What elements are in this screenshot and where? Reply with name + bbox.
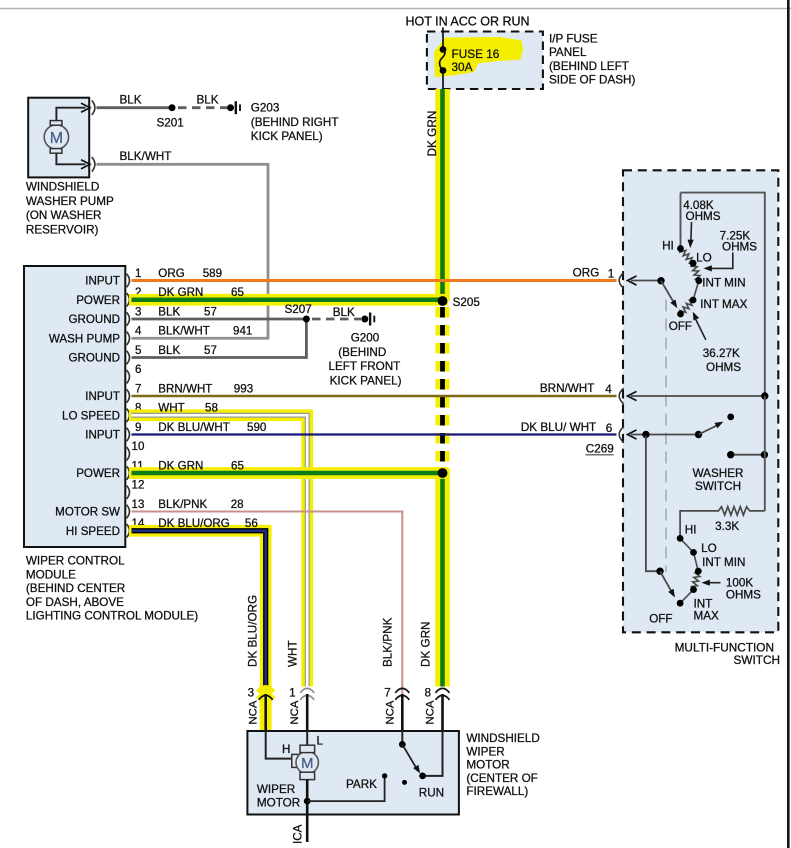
module pin 4 connector bbox=[127, 332, 130, 345]
svg-text:OHMS: OHMS bbox=[686, 210, 721, 223]
svg-text:FUSE 16: FUSE 16 bbox=[452, 47, 500, 61]
highlight blob over fuse bbox=[434, 37, 523, 77]
park junction bbox=[304, 798, 311, 805]
svg-text:OHMS: OHMS bbox=[726, 588, 761, 601]
svg-text:SWITCH: SWITCH bbox=[733, 653, 780, 667]
wire pin 8 to RUN contact bbox=[426, 731, 443, 776]
multi-function switch box bbox=[623, 170, 778, 632]
svg-text:S205: S205 bbox=[453, 296, 481, 309]
svg-text:BLK/WHT: BLK/WHT bbox=[158, 325, 210, 338]
svg-text:589: 589 bbox=[203, 267, 222, 280]
wire INT MIN to INT MAX bbox=[693, 281, 699, 300]
svg-text:BLK: BLK bbox=[197, 93, 219, 106]
svg-text:I/P FUSE: I/P FUSE bbox=[549, 33, 598, 46]
svg-text:941: 941 bbox=[233, 325, 252, 338]
svg-text:3: 3 bbox=[135, 305, 141, 318]
svg-text:36.27K: 36.27K bbox=[703, 347, 740, 360]
washer pump motor M symbol bbox=[44, 125, 68, 149]
NCA break connector pin 1 (WHT) bbox=[300, 688, 314, 692]
svg-text:(BEHIND LEFT: (BEHIND LEFT bbox=[549, 60, 629, 73]
wire BLK pump to S201 bbox=[97, 106, 173, 109]
resistor 100K between INT MIN and INT MAX bbox=[691, 571, 699, 589]
page right border line bbox=[787, 0, 790, 848]
svg-text:POWER: POWER bbox=[76, 467, 120, 480]
module pin 2 connector bbox=[127, 293, 130, 306]
svg-text:(CENTER OF: (CENTER OF bbox=[466, 772, 537, 785]
svg-text:3: 3 bbox=[248, 687, 255, 700]
svg-text:GROUND: GROUND bbox=[68, 313, 120, 326]
svg-text:INT MAX: INT MAX bbox=[700, 298, 747, 311]
svg-text:WINDSHIELD: WINDSHIELD bbox=[466, 732, 539, 745]
svg-text:(ON WASHER: (ON WASHER bbox=[26, 209, 102, 222]
wire BLK dashed S207 to G200 bbox=[312, 318, 361, 321]
svg-text:13: 13 bbox=[132, 498, 145, 511]
svg-text:MOTOR SW: MOTOR SW bbox=[55, 506, 120, 519]
park switch arm to RUN bbox=[402, 744, 416, 768]
wire WHT pin 8 to motor pin 1 (highlighted) bbox=[129, 415, 307, 686]
wiper switch feed wire (top chain) bbox=[681, 193, 765, 398]
svg-text:NCA: NCA bbox=[248, 700, 260, 724]
svg-text:1: 1 bbox=[135, 267, 141, 280]
svg-text:POWER: POWER bbox=[76, 294, 120, 307]
svg-text:1: 1 bbox=[289, 687, 296, 700]
svg-text:HOT IN ACC OR RUN: HOT IN ACC OR RUN bbox=[406, 15, 530, 29]
washer selector arm bbox=[646, 436, 660, 571]
svg-text:S207: S207 bbox=[285, 303, 312, 316]
MFS pin 4 connector bbox=[619, 388, 623, 404]
svg-text:57: 57 bbox=[204, 305, 217, 318]
svg-text:4: 4 bbox=[605, 383, 612, 396]
splice S205 bbox=[438, 296, 448, 306]
svg-text:BLK: BLK bbox=[158, 344, 180, 357]
svg-text:INPUT: INPUT bbox=[85, 275, 120, 288]
svg-text:ORG: ORG bbox=[158, 267, 184, 280]
svg-text:LO: LO bbox=[701, 542, 717, 555]
wiper motor wire to park junction and ICA tail bbox=[306, 780, 309, 842]
svg-text:65: 65 bbox=[231, 459, 244, 472]
svg-text:FIREWALL): FIREWALL) bbox=[466, 785, 528, 798]
PARK contact wire bbox=[307, 778, 384, 802]
wiper switch arm to OFF bbox=[661, 281, 674, 303]
svg-text:S201: S201 bbox=[157, 117, 184, 130]
svg-text:SWITCH: SWITCH bbox=[695, 480, 741, 493]
svg-text:PANEL: PANEL bbox=[549, 46, 587, 59]
svg-text:RUN: RUN bbox=[419, 787, 444, 800]
module pin 8 connector bbox=[127, 409, 130, 422]
svg-text:6: 6 bbox=[135, 363, 141, 376]
svg-text:1: 1 bbox=[608, 268, 615, 281]
windshield washer pump box bbox=[28, 98, 89, 178]
svg-text:GROUND: GROUND bbox=[68, 352, 120, 365]
module pin 5 connector bbox=[127, 351, 130, 364]
svg-text:M: M bbox=[50, 130, 63, 147]
right chain down to 3.3K resistor bbox=[764, 396, 766, 511]
pump internal wire to BLK/WHT pin bbox=[56, 153, 85, 164]
svg-text:28: 28 bbox=[231, 498, 244, 511]
mechanical link dashed line bbox=[665, 300, 667, 573]
svg-text:58: 58 bbox=[205, 402, 218, 415]
svg-text:(BEHIND RIGHT: (BEHIND RIGHT bbox=[251, 116, 339, 129]
svg-text:LO: LO bbox=[696, 252, 712, 265]
svg-text:7: 7 bbox=[384, 687, 391, 700]
svg-text:OF DASH, ABOVE: OF DASH, ABOVE bbox=[26, 596, 124, 609]
wire BLK/PNK pin 13 to motor pin 7 bbox=[132, 512, 403, 732]
svg-text:(BEHIND: (BEHIND bbox=[338, 346, 386, 359]
svg-text:BLK: BLK bbox=[120, 93, 142, 106]
svg-text:65: 65 bbox=[231, 286, 244, 299]
svg-text:ORG: ORG bbox=[573, 267, 600, 280]
wiper motor wire pin 1 to L brush bbox=[306, 731, 308, 745]
svg-text:WHT: WHT bbox=[287, 640, 300, 667]
svg-text:5: 5 bbox=[135, 344, 141, 357]
svg-text:M: M bbox=[301, 755, 314, 772]
wire BLK dashed S201 to G203 bbox=[178, 106, 227, 109]
wire DK GRN pin 2 to S205 (highlighted) bbox=[129, 294, 448, 306]
washer switch output segment bbox=[731, 454, 765, 456]
module pin 1 connector bbox=[127, 274, 130, 287]
svg-text:WASHER: WASHER bbox=[693, 467, 744, 480]
svg-text:MODULE: MODULE bbox=[26, 568, 76, 581]
wire BLK/WHT pump to module pin 4 bbox=[97, 164, 269, 338]
MFS pin 1 connector bbox=[619, 273, 623, 289]
svg-text:MOTOR: MOTOR bbox=[257, 797, 300, 810]
svg-text:BLK/WHT: BLK/WHT bbox=[120, 150, 172, 163]
wiper motor wire pin 3 to H brush bbox=[266, 731, 292, 759]
svg-text:HI: HI bbox=[685, 524, 697, 537]
svg-text:G203: G203 bbox=[251, 102, 280, 115]
park switch pivot dot bbox=[402, 780, 407, 785]
ground G203 bbox=[227, 104, 234, 111]
module pin 6 connector bbox=[127, 370, 130, 383]
svg-text:KICK PANEL): KICK PANEL) bbox=[251, 130, 323, 143]
pump connector arcs bbox=[92, 100, 95, 115]
svg-text:BLK: BLK bbox=[158, 305, 180, 318]
NCA break connector pin 3 (DK BLU/ORG) bbox=[260, 686, 272, 731]
module pin 14 connector bbox=[127, 524, 130, 537]
wire DK GRN pin 11 to junction (highlighted) bbox=[129, 467, 448, 479]
wire BLK pin 3 to S207 bbox=[132, 318, 307, 321]
wiper switch selector pivot bbox=[657, 277, 664, 284]
splice S207 bbox=[303, 316, 310, 323]
svg-text:LIGHTING CONTROL MODULE): LIGHTING CONTROL MODULE) bbox=[26, 610, 198, 623]
svg-text:590: 590 bbox=[247, 421, 266, 434]
svg-text:DK BLU/ORG: DK BLU/ORG bbox=[247, 595, 260, 667]
I/P fuse panel box bbox=[427, 32, 543, 90]
svg-text:ICA: ICA bbox=[292, 824, 305, 844]
svg-text:HI: HI bbox=[662, 240, 674, 253]
MFS pin 6 connector bbox=[619, 427, 623, 443]
svg-text:3.3K: 3.3K bbox=[715, 520, 739, 533]
svg-text:4: 4 bbox=[135, 325, 142, 338]
splice S201 bbox=[169, 104, 176, 111]
svg-text:(BEHIND CENTER: (BEHIND CENTER bbox=[26, 582, 125, 595]
module pin 3 connector bbox=[127, 312, 130, 325]
svg-text:9: 9 bbox=[135, 421, 141, 434]
svg-text:WINDSHIELD: WINDSHIELD bbox=[26, 181, 99, 194]
ground G200 bbox=[361, 316, 368, 323]
wire ORG pin 1 to multi-function switch pin 1 bbox=[132, 279, 617, 282]
svg-text:WIPER CONTROL: WIPER CONTROL bbox=[26, 555, 125, 568]
RUN contact bbox=[419, 773, 426, 780]
pump internal wire to BLK pin bbox=[56, 108, 85, 121]
wiper control module box bbox=[24, 266, 125, 547]
svg-text:SIDE OF DASH): SIDE OF DASH) bbox=[549, 74, 635, 87]
svg-text:WASH PUMP: WASH PUMP bbox=[49, 332, 120, 345]
resistor 7.25K between LO and INT MIN bbox=[691, 263, 700, 281]
svg-text:G200: G200 bbox=[351, 332, 380, 345]
resistor 36.27K between INT MAX and OFF bbox=[680, 300, 693, 314]
wire DK BLU/ORG pin 14 to motor pin 3 (highlighted) bbox=[129, 531, 266, 731]
svg-text:MAX: MAX bbox=[694, 609, 720, 622]
svg-text:DK BLU/WHT: DK BLU/WHT bbox=[158, 421, 230, 434]
NCA break connector pin 8 (DK GRN) bbox=[436, 688, 450, 692]
svg-text:HI SPEED: HI SPEED bbox=[66, 525, 120, 538]
svg-text:NCA: NCA bbox=[425, 700, 437, 724]
washer switch contact bbox=[727, 414, 734, 421]
svg-text:PARK: PARK bbox=[346, 778, 377, 791]
NCA break connector pin 7 (BLK/PNK) bbox=[395, 688, 409, 692]
svg-text:DK BLU/ORG: DK BLU/ORG bbox=[158, 517, 230, 530]
wire BLK pin 5 to S207 bbox=[132, 319, 307, 358]
resistor 4.08K between HI and LO bbox=[680, 249, 693, 264]
svg-text:10: 10 bbox=[132, 440, 145, 453]
fuse F16 symbol bbox=[440, 46, 447, 53]
windshield wiper motor box bbox=[247, 731, 459, 815]
svg-text:INT MIN: INT MIN bbox=[702, 556, 745, 569]
svg-text:LEFT FRONT: LEFT FRONT bbox=[328, 360, 400, 373]
wiper switch contacts bbox=[677, 245, 684, 252]
svg-text:30A: 30A bbox=[452, 60, 473, 74]
svg-text:DK GRN: DK GRN bbox=[158, 459, 203, 472]
junction pin 11 to DK GRN vertical bbox=[438, 468, 448, 478]
svg-text:KICK PANEL): KICK PANEL) bbox=[330, 374, 402, 387]
page top border line bbox=[0, 8, 791, 10]
svg-text:56: 56 bbox=[245, 517, 258, 530]
wire BRN/WHT pin 7 to multi-function switch pin 4 bbox=[132, 395, 617, 398]
washer switch arm bbox=[642, 431, 649, 438]
svg-text:NCA: NCA bbox=[289, 700, 301, 724]
svg-text:INPUT: INPUT bbox=[85, 429, 120, 442]
svg-text:DK GRN: DK GRN bbox=[158, 286, 203, 299]
svg-text:H: H bbox=[282, 743, 290, 756]
module pin 12 connector bbox=[127, 486, 130, 499]
module pin 9 connector bbox=[127, 428, 130, 441]
svg-text:BRN/WHT: BRN/WHT bbox=[158, 382, 212, 395]
svg-text:8: 8 bbox=[424, 687, 431, 700]
svg-text:OHMS: OHMS bbox=[722, 241, 757, 254]
svg-text:WHT: WHT bbox=[158, 402, 184, 415]
svg-text:DK GRN: DK GRN bbox=[425, 111, 439, 157]
svg-text:OFF: OFF bbox=[649, 612, 672, 625]
module pin 13 connector bbox=[127, 505, 130, 518]
wire DK BLU/WHT pin 9 to multi-function switch pin 6 bbox=[132, 433, 617, 435]
svg-text:BRN/WHT: BRN/WHT bbox=[540, 382, 595, 395]
svg-text:BLK/PNK: BLK/PNK bbox=[382, 617, 395, 667]
module pin 11 connector bbox=[127, 466, 130, 479]
module pin 10 connector bbox=[127, 447, 130, 460]
svg-text:OHMS: OHMS bbox=[706, 361, 741, 374]
svg-text:LO SPEED: LO SPEED bbox=[62, 409, 120, 422]
svg-text:WIPER: WIPER bbox=[466, 745, 504, 758]
svg-text:NCA: NCA bbox=[384, 700, 396, 724]
svg-text:RESERVOIR): RESERVOIR) bbox=[26, 223, 99, 236]
svg-text:WIPER: WIPER bbox=[257, 783, 295, 796]
svg-text:INT MIN: INT MIN bbox=[702, 277, 745, 290]
svg-text:L: L bbox=[317, 735, 324, 748]
module pin 7 connector bbox=[127, 389, 130, 402]
svg-text:MOTOR: MOTOR bbox=[466, 759, 509, 772]
washer speed contacts chain bbox=[680, 538, 693, 552]
svg-text:7: 7 bbox=[135, 382, 141, 395]
svg-text:57: 57 bbox=[204, 344, 217, 357]
resistor 3.3K bbox=[680, 507, 765, 539]
svg-text:INPUT: INPUT bbox=[85, 390, 120, 403]
svg-text:OFF: OFF bbox=[669, 320, 692, 333]
svg-text:DK BLU/ WHT: DK BLU/ WHT bbox=[521, 421, 596, 434]
svg-text:WASHER PUMP: WASHER PUMP bbox=[26, 195, 114, 208]
svg-text:BLK/PNK: BLK/PNK bbox=[158, 498, 207, 511]
svg-text:BLK: BLK bbox=[333, 306, 355, 319]
svg-text:C269: C269 bbox=[586, 442, 614, 455]
wire DK GRN vertical: junction to motor pin 8 bbox=[435, 468, 450, 687]
svg-text:6: 6 bbox=[606, 422, 613, 435]
svg-text:993: 993 bbox=[234, 382, 253, 395]
svg-text:12: 12 bbox=[132, 479, 145, 492]
svg-text:DK GRN: DK GRN bbox=[420, 622, 433, 667]
wire from HOT feed into fuse bbox=[442, 28, 444, 50]
wiper motor M symbol bbox=[292, 754, 299, 767]
wire pin 7 to park switch bbox=[401, 731, 403, 744]
wire DK GRN vertical: fuse to S205 (highlighted) bbox=[435, 89, 450, 301]
wire DK GRN vertical: S205 to pin11 junction (dashed highlight) bbox=[436, 307, 450, 468]
